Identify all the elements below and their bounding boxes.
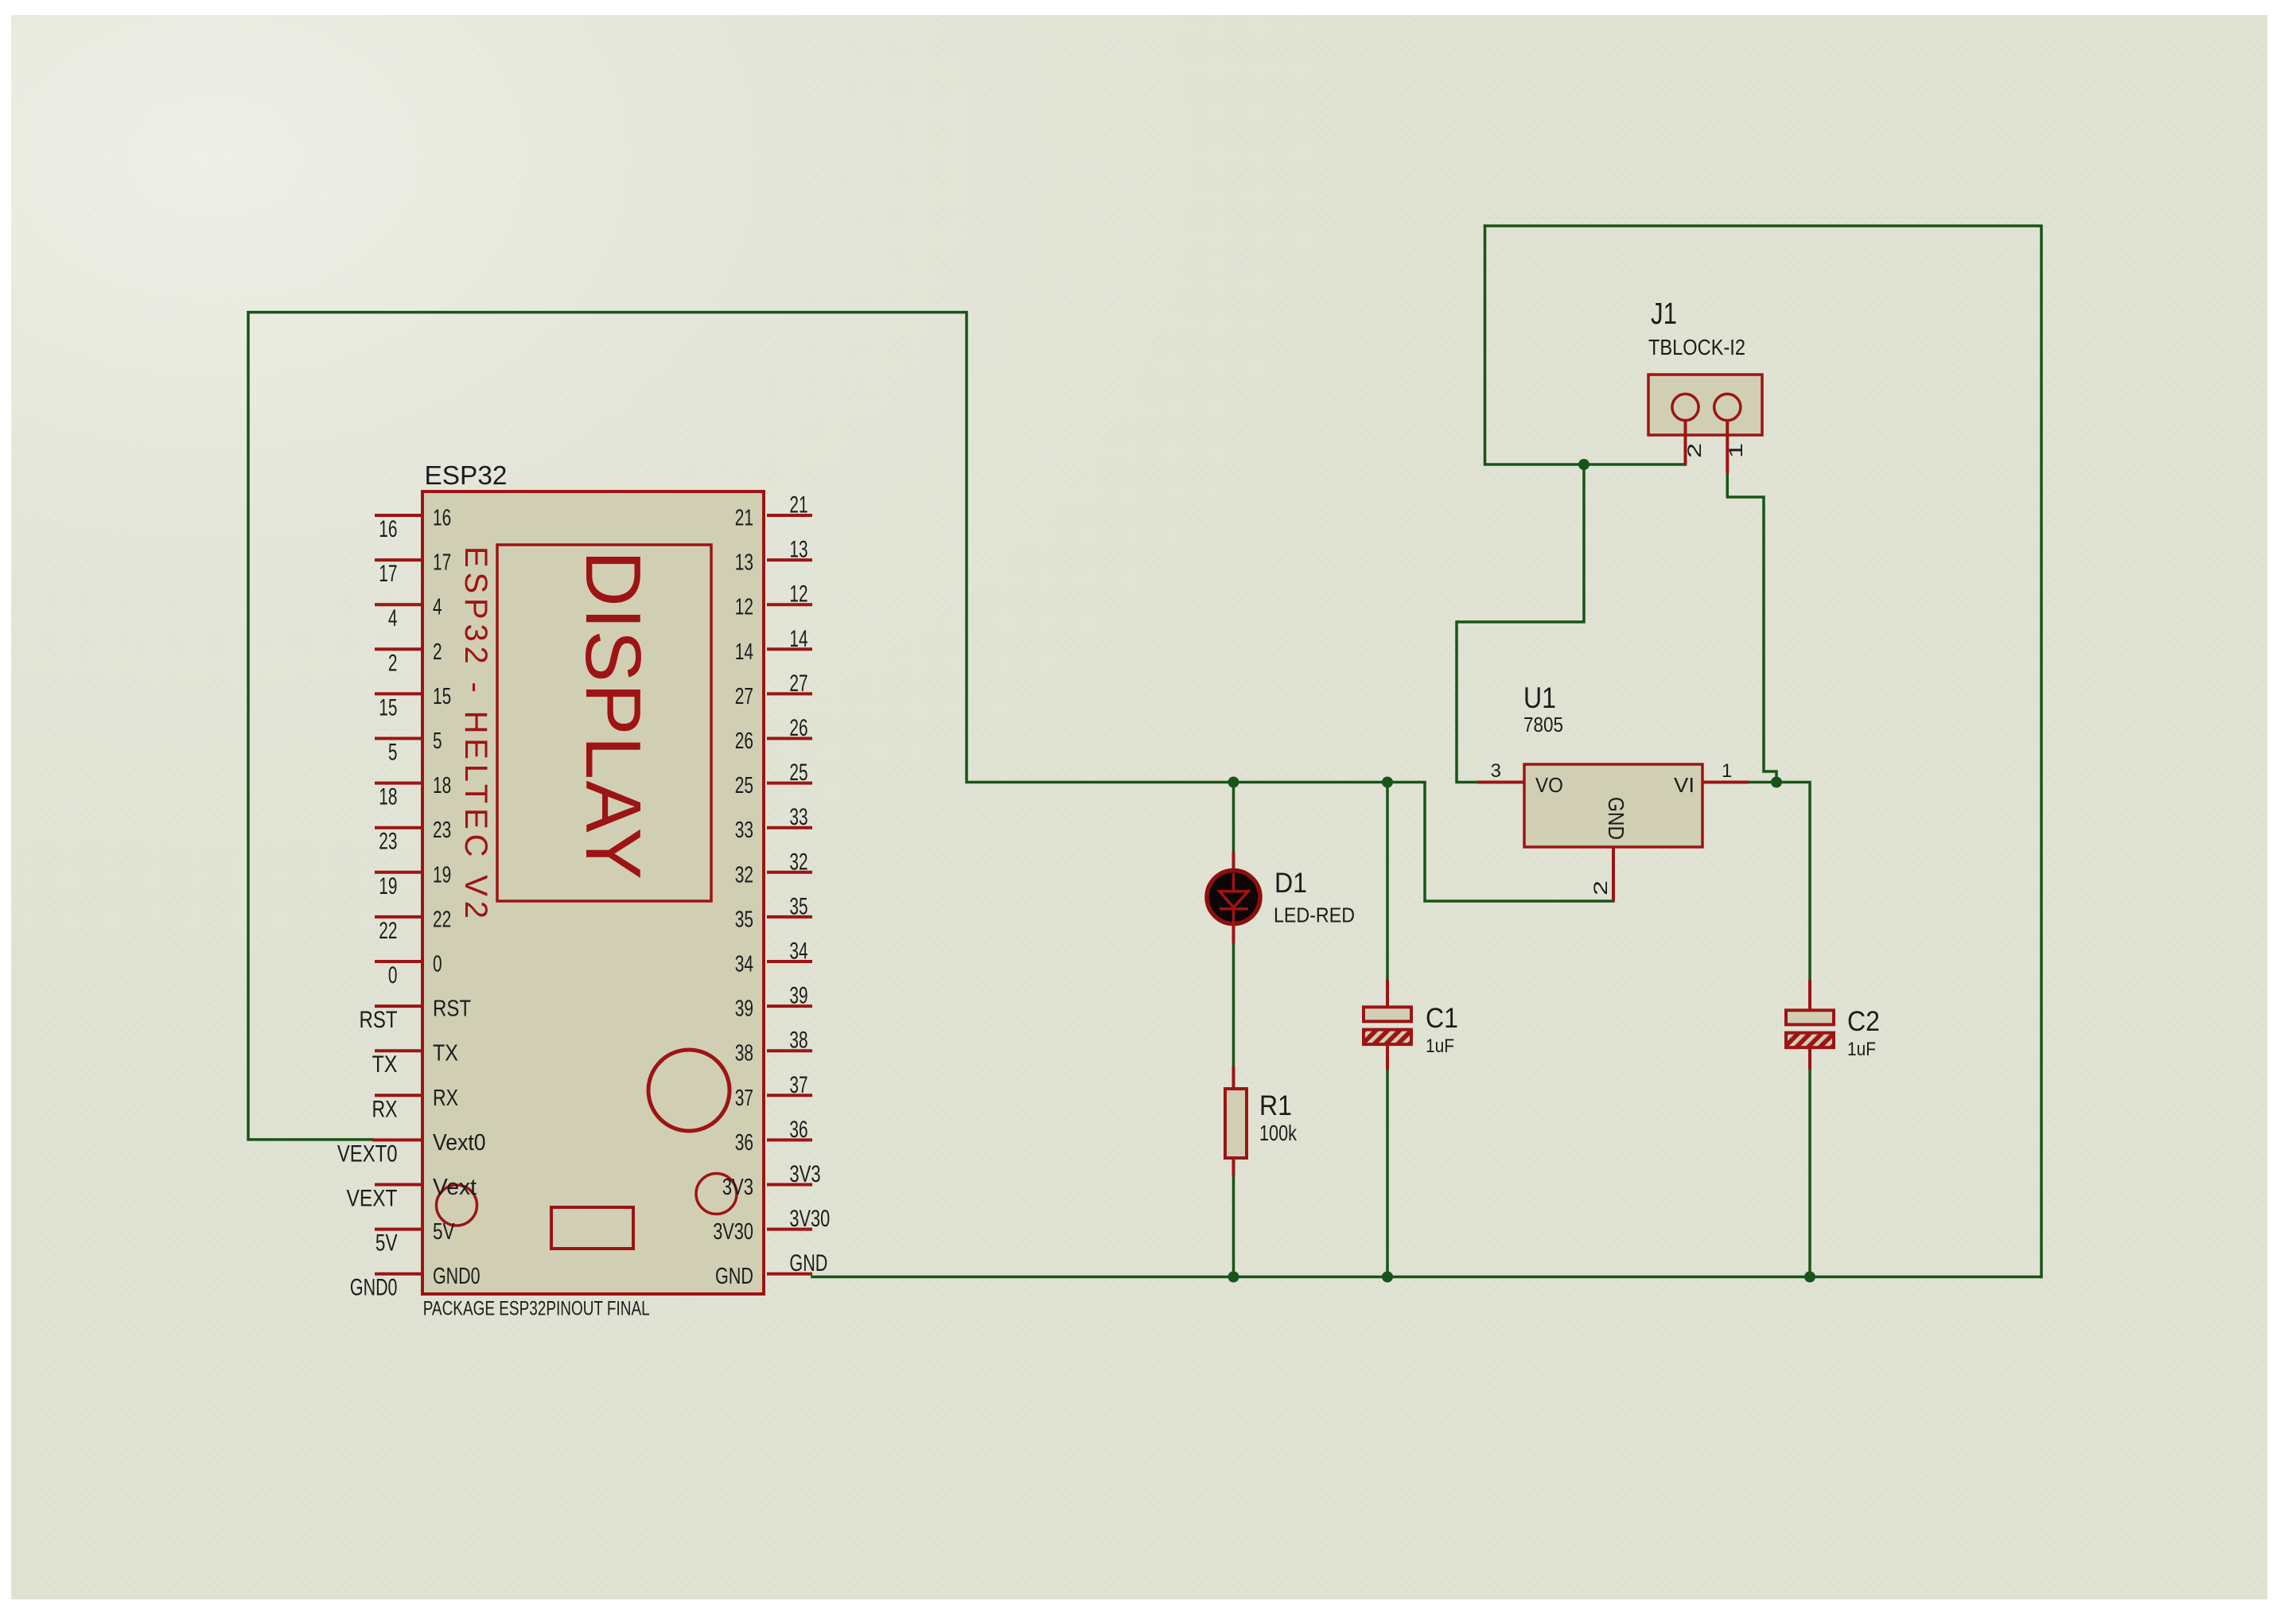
svg-text:39: 39 — [789, 983, 807, 1009]
capacitor C2 top lead — [1808, 980, 1811, 1012]
svg-text:14: 14 — [735, 639, 753, 665]
svg-text:VO: VO — [1535, 773, 1563, 797]
svg-text:19: 19 — [379, 873, 397, 899]
svg-text:100k: 100k — [1259, 1121, 1298, 1145]
ESP32 left pin 22 row 9 — [375, 915, 422, 919]
svg-text:18: 18 — [379, 784, 397, 810]
wire: C1 bottom to GND bus — [1386, 1070, 1389, 1277]
LED D1 diode symbol — [1220, 873, 1248, 923]
svg-text:27: 27 — [789, 670, 807, 697]
wire: J1 pin 2 net top loop to GND bus right side — [1485, 226, 2042, 1277]
ESP32 right pin 35 row 9 — [767, 915, 812, 919]
ESP32 decorative circle near Vext — [437, 1185, 477, 1226]
LED D1 body — [1207, 871, 1260, 924]
ESP32 right pin 33 row 7 — [767, 826, 812, 829]
svg-text:Vext0: Vext0 — [433, 1130, 486, 1156]
ESP32 left pin Vext row 15 — [375, 1183, 422, 1187]
ESP32 right pin 14 row 3 — [767, 647, 812, 651]
wire: VEXT0 net from ESP32 Vext0 pin up and across to D1 — [248, 313, 1234, 1140]
wire: VI node across to C2 top — [1749, 783, 1810, 984]
ESP32 right pin 38 row 12 — [767, 1049, 812, 1052]
J1 terminal 1 circle — [1714, 394, 1741, 420]
svg-text:3V30: 3V30 — [713, 1219, 753, 1245]
svg-text:21: 21 — [735, 506, 753, 531]
wire: D1 junction to C1 junction — [1234, 781, 1388, 784]
svg-text:17: 17 — [433, 550, 451, 576]
ESP32 right pin 21 row 0 — [767, 514, 812, 517]
ESP32 right pin 37 row 13 — [767, 1094, 812, 1097]
ESP32 decorative circle (antenna) — [648, 1050, 730, 1131]
svg-text:VI: VI — [1674, 773, 1695, 797]
ESP32 left pin 16 row 0 — [375, 514, 422, 517]
svg-text:13: 13 — [789, 537, 807, 563]
svg-text:37: 37 — [735, 1086, 753, 1111]
svg-text:34: 34 — [735, 952, 753, 977]
svg-text:U1: U1 — [1523, 682, 1556, 714]
svg-text:3V3: 3V3 — [789, 1161, 820, 1187]
svg-text:15: 15 — [433, 684, 451, 709]
ESP32 decorative rectangle — [551, 1207, 633, 1249]
svg-text:0: 0 — [388, 962, 398, 989]
junction: VI node (U1 pin 1 / J1 pin 1 / C2) — [1771, 777, 1782, 788]
svg-text:19: 19 — [433, 862, 451, 888]
ESP32 module body — [422, 491, 764, 1294]
ESP32 right pin 25 row 6 — [767, 782, 812, 785]
svg-text:1uF: 1uF — [1426, 1035, 1454, 1057]
svg-text:16: 16 — [433, 506, 451, 531]
ESP32 right pin 3V3 row 15 — [767, 1183, 812, 1187]
wire: J1 pin 1 down to VI node — [1727, 473, 1776, 783]
svg-text:25: 25 — [735, 773, 753, 798]
junction: VEXT0 net / D1 — [1228, 777, 1239, 788]
capacitor C1 top plate — [1364, 1007, 1411, 1021]
svg-text:2: 2 — [1684, 443, 1706, 458]
svg-text:LED-RED: LED-RED — [1274, 903, 1355, 927]
svg-text:18: 18 — [433, 773, 451, 798]
svg-text:4: 4 — [388, 605, 398, 631]
svg-text:15: 15 — [379, 694, 397, 721]
svg-text:22: 22 — [379, 918, 397, 944]
wire: C2 bottom to GND bus — [1808, 1070, 1811, 1277]
svg-text:37: 37 — [789, 1072, 807, 1098]
svg-text:TX: TX — [372, 1051, 398, 1078]
svg-text:4: 4 — [433, 595, 442, 620]
ESP32 left pin 2 row 3 — [375, 647, 422, 651]
svg-text:GND: GND — [715, 1264, 753, 1289]
ESP32 left pin 18 row 6 — [375, 782, 422, 785]
junction: GND bus / R1 — [1228, 1272, 1239, 1283]
ESP32 right pin 3V30 row 16 — [767, 1228, 812, 1231]
ESP32 left pin Vext0 row 14 — [372, 1138, 422, 1141]
svg-text:38: 38 — [735, 1041, 753, 1066]
ESP32 right pin 27 row 4 — [767, 692, 812, 695]
capacitor C2 bottom plate (polarised) — [1786, 1033, 1834, 1048]
svg-text:36: 36 — [789, 1117, 807, 1143]
svg-text:5: 5 — [433, 728, 442, 754]
svg-text:32: 32 — [735, 862, 753, 888]
svg-text:33: 33 — [789, 804, 807, 830]
svg-text:33: 33 — [735, 818, 753, 843]
svg-text:ESP32: ESP32 — [425, 460, 508, 490]
capacitor C2 bottom lead — [1808, 1047, 1811, 1070]
ESP32 left pin 5V row 16 — [375, 1228, 422, 1231]
J1 pin 1 stub — [1726, 420, 1729, 473]
svg-text:12: 12 — [735, 595, 753, 620]
wire: D1 cathode down to R1 — [1232, 943, 1235, 1066]
U1 pin 1 VI stub — [1702, 781, 1749, 784]
ESP32 left pin 17 row 1 — [375, 558, 422, 561]
svg-text:2: 2 — [388, 650, 398, 676]
svg-text:5V: 5V — [375, 1230, 398, 1257]
svg-text:TX: TX — [433, 1041, 458, 1066]
svg-text:C2: C2 — [1847, 1006, 1880, 1037]
svg-text:RST: RST — [360, 1007, 398, 1033]
svg-text:J1: J1 — [1651, 297, 1677, 331]
U1 pin 2 GND stub — [1612, 847, 1615, 901]
svg-text:16: 16 — [379, 516, 397, 542]
wire: D1 anode up to VEXT0 net — [1232, 783, 1235, 853]
svg-text:23: 23 — [433, 818, 451, 843]
svg-text:38: 38 — [789, 1028, 807, 1054]
J1 terminal 2 circle — [1672, 394, 1698, 420]
wire: GND bus from ESP32 GND pin to right side — [812, 1276, 2041, 1279]
wire: left drop of top loop to J1 pin 2 — [1485, 226, 1686, 464]
svg-text:1uF: 1uF — [1847, 1039, 1876, 1060]
capacitor C1 top lead — [1386, 980, 1389, 1008]
svg-text:22: 22 — [433, 907, 451, 932]
svg-text:1: 1 — [1726, 443, 1747, 458]
ESP32 right pin 32 row 8 — [767, 871, 812, 874]
svg-text:0: 0 — [433, 952, 442, 977]
capacitor C1 bottom lead — [1386, 1044, 1389, 1070]
wire: J1 pin 2 junction down to U1 VO pin 3 — [1457, 464, 1584, 783]
svg-text:R1: R1 — [1259, 1090, 1292, 1121]
svg-text:3: 3 — [1491, 760, 1501, 782]
junction: GND bus / C1 — [1382, 1272, 1393, 1283]
svg-text:35: 35 — [735, 907, 753, 932]
capacitor C1 bottom plate (polarised) — [1364, 1030, 1411, 1045]
regulator U1 body — [1524, 764, 1702, 847]
svg-text:PACKAGE ESP32PINOUT FINAL: PACKAGE ESP32PINOUT FINAL — [423, 1298, 650, 1320]
svg-text:21: 21 — [789, 492, 807, 519]
svg-text:26: 26 — [789, 715, 807, 741]
resistor R1 body — [1225, 1089, 1247, 1158]
junction: GND bus / C2 — [1804, 1272, 1815, 1283]
ESP32 right pin 12 row 2 — [767, 603, 812, 606]
svg-text:39: 39 — [735, 997, 753, 1022]
svg-text:13: 13 — [735, 550, 753, 576]
ESP32 left pin 15 row 4 — [375, 692, 422, 695]
ESP32 left pin 5 row 5 — [375, 737, 422, 740]
svg-text:DISPLAY: DISPLAY — [570, 550, 657, 880]
J1 pin 2 stub — [1684, 420, 1687, 464]
svg-text:2: 2 — [433, 639, 442, 665]
ESP32 left pin 4 row 2 — [375, 603, 422, 606]
junction: VEXT0 net / C1 — [1382, 777, 1393, 788]
svg-text:GND: GND — [1604, 797, 1628, 840]
ESP32 decorative circle near 3V3 — [696, 1174, 737, 1214]
ESP32 left pin 0 row 10 — [375, 960, 422, 963]
svg-text:Vext: Vext — [433, 1175, 477, 1200]
svg-text:26: 26 — [735, 728, 753, 754]
svg-text:25: 25 — [789, 760, 807, 786]
svg-text:C1: C1 — [1426, 1003, 1458, 1034]
svg-text:GND0: GND0 — [350, 1275, 398, 1301]
ESP32 right pin 39 row 11 — [767, 1004, 812, 1008]
ESP32 left pin 19 row 8 — [375, 871, 422, 874]
ESP32 right pin 26 row 5 — [767, 737, 812, 740]
svg-text:GND0: GND0 — [433, 1264, 481, 1289]
svg-text:RST: RST — [433, 997, 471, 1022]
svg-text:35: 35 — [789, 893, 807, 919]
svg-text:VEXT: VEXT — [347, 1186, 398, 1212]
svg-text:VEXT0: VEXT0 — [337, 1140, 398, 1167]
svg-text:5V: 5V — [433, 1219, 455, 1245]
ESP32 left pin TX row 12 — [375, 1049, 422, 1052]
junction: J1 pin 2 net — [1578, 459, 1589, 470]
wire: C1 top to VEXT0 net — [1386, 783, 1389, 980]
wire: R1 bottom to GND bus — [1232, 1176, 1235, 1277]
svg-text:23: 23 — [379, 829, 397, 855]
ESP32 left pin RST row 11 — [375, 1004, 422, 1008]
svg-text:3V30: 3V30 — [789, 1206, 830, 1232]
svg-text:34: 34 — [789, 938, 807, 965]
resistor R1 top lead — [1232, 1066, 1235, 1089]
resistor R1 bottom lead — [1232, 1158, 1235, 1176]
capacitor C2 top plate — [1786, 1010, 1834, 1024]
svg-text:ESP32 - HELTEC V2: ESP32 - HELTEC V2 — [458, 546, 493, 919]
wire: C1 junction to U1 GND pin 2 — [1387, 783, 1613, 902]
svg-text:RX: RX — [372, 1096, 398, 1122]
svg-text:5: 5 — [388, 740, 398, 766]
svg-text:17: 17 — [379, 561, 397, 587]
svg-text:2: 2 — [1590, 880, 1612, 896]
U1 pin 3 VO stub — [1477, 781, 1524, 784]
LED D1 anode lead — [1232, 852, 1235, 873]
svg-text:32: 32 — [789, 849, 807, 875]
ESP32 right pin GND row 17 — [767, 1272, 812, 1276]
svg-text:1: 1 — [1722, 760, 1732, 782]
svg-text:GND: GND — [789, 1250, 827, 1276]
svg-text:36: 36 — [735, 1130, 753, 1156]
ESP32 left pin 23 row 7 — [375, 826, 422, 829]
svg-text:12: 12 — [789, 581, 807, 608]
svg-text:RX: RX — [433, 1086, 458, 1111]
terminal block J1 body — [1648, 375, 1762, 435]
ESP32 right pin 13 row 1 — [767, 558, 812, 561]
svg-text:14: 14 — [789, 626, 807, 652]
ESP32 right pin 36 row 14 — [767, 1138, 812, 1141]
svg-text:27: 27 — [735, 684, 753, 709]
svg-text:3V3: 3V3 — [722, 1175, 753, 1200]
svg-text:TBLOCK-I2: TBLOCK-I2 — [1648, 335, 1745, 359]
ESP32 left pin RX row 13 — [375, 1094, 422, 1097]
ESP32 left pin GND0 row 17 — [375, 1272, 422, 1276]
svg-text:D1: D1 — [1274, 868, 1307, 899]
svg-text:7805: 7805 — [1523, 713, 1563, 736]
ESP32 right pin 34 row 10 — [767, 960, 812, 963]
LED D1 cathode lead — [1232, 921, 1235, 943]
DISPLAY sub-box — [497, 545, 711, 901]
